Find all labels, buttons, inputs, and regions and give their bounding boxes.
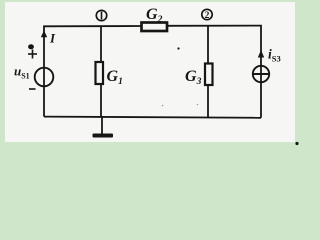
svg-text:2: 2: [205, 11, 210, 21]
svg-text:uS1: uS1: [14, 64, 30, 81]
plus sign of source: [28, 12, 102, 90]
corner speck bottom right: [295, 142, 298, 145]
ground bar: [93, 134, 114, 138]
node 2 circle: [202, 9, 212, 19]
ink speck near G3: [177, 47, 179, 49]
node 1 digit: [101, 12, 103, 20]
wire node2 branch: [207, 26, 209, 64]
current source bar: [253, 73, 269, 75]
node 1 circle: [96, 10, 106, 20]
resistor G2: [142, 23, 168, 32]
wire top right segment: [167, 26, 261, 118]
svg-text:I: I: [49, 30, 56, 45]
scan speck near bottom wire left: [162, 105, 164, 107]
wire node2 branch lower: [207, 85, 209, 117]
svg-text:G3: G3: [185, 68, 202, 87]
resistor G1: [96, 62, 104, 84]
ground stub wire: [101, 117, 103, 134]
minus sign of source: [29, 88, 36, 90]
scan speck near bottom wire right: [197, 104, 199, 106]
resistor G3: [205, 64, 213, 86]
wire node1 branch: [100, 26, 102, 62]
ink speck above plus: [28, 44, 34, 49]
current arrow I on left branch: [41, 31, 47, 38]
current source i_S3 circle: [253, 66, 269, 82]
svg-text:iS3: iS3: [268, 47, 281, 64]
svg-text:G2: G2: [146, 6, 163, 25]
current arrow i_S3: [258, 50, 264, 58]
svg-text:G1: G1: [107, 68, 123, 87]
wire node1 branch lower: [100, 84, 102, 117]
wire bottom: [44, 117, 261, 118]
wire top left segment: [44, 26, 142, 117]
voltage source u_S1 circle: [35, 68, 54, 87]
